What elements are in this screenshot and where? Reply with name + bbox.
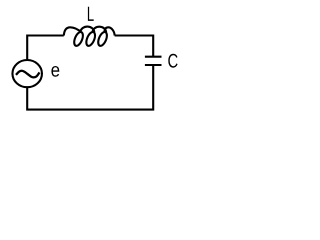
inductor L [64, 27, 115, 46]
ac source e sine wave [16, 71, 40, 78]
capacitor C bottom plate [145, 64, 162, 66]
capacitor C top plate [145, 56, 162, 58]
label C [168, 54, 177, 68]
label e [51, 66, 59, 77]
label L [88, 7, 94, 21]
wire bottom [27, 65, 153, 110]
wire top-right [115, 36, 154, 57]
ac source e circle [12, 60, 42, 87]
wire top-left [27, 36, 64, 61]
